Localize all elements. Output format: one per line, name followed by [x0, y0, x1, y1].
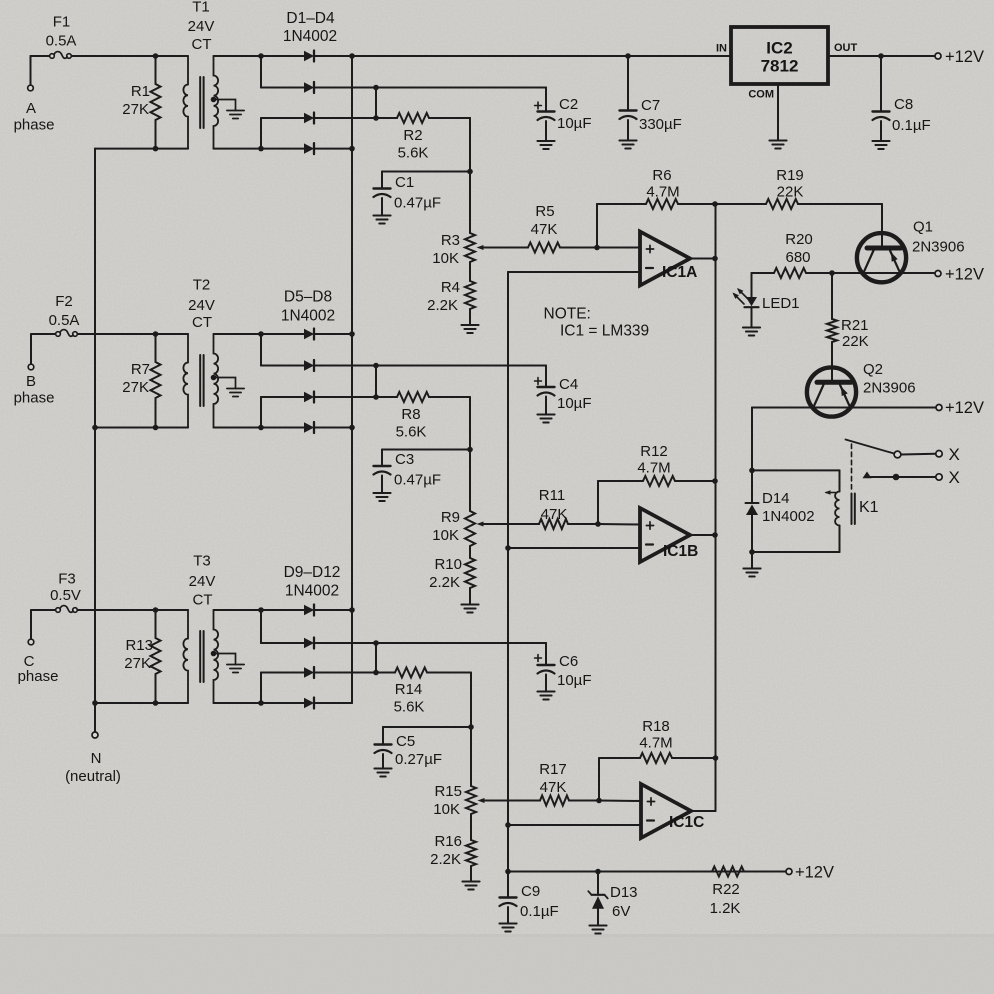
svg-text:0.5A: 0.5A — [49, 312, 80, 329]
label R4 — [427, 279, 460, 314]
ground C9 — [499, 924, 516, 932]
svg-text:0.5V: 0.5V — [50, 587, 81, 604]
svg-text:T3: T3 — [193, 553, 211, 570]
svg-text:0.1µF: 0.1µF — [892, 117, 931, 134]
svg-text:phase: phase — [18, 668, 59, 685]
svg-text:D13: D13 — [610, 884, 638, 901]
wire IC1C - input — [508, 824, 641, 826]
wire detect-C to C6 — [376, 643, 546, 665]
svg-text:10K: 10K — [432, 250, 459, 267]
label X (top) — [949, 445, 960, 464]
label F1 — [46, 14, 77, 50]
svg-text:C1: C1 — [395, 174, 414, 191]
label IC2 pin IN — [716, 42, 727, 54]
node R1 top — [153, 53, 159, 59]
svg-text:R22: R22 — [712, 881, 740, 898]
label R16 — [430, 833, 462, 868]
svg-text:2.2K: 2.2K — [430, 851, 461, 868]
node C7 tap — [625, 53, 631, 59]
svg-text:Q2: Q2 — [863, 361, 883, 378]
svg-text:R16: R16 — [434, 833, 462, 850]
label R22 — [710, 881, 741, 917]
diode D8 — [261, 422, 352, 433]
svg-text:B: B — [26, 373, 36, 390]
node R7 top — [153, 331, 159, 337]
resistor R14 5.6K — [395, 668, 427, 678]
svg-text:10µF: 10µF — [557, 115, 592, 132]
svg-text:2.2K: 2.2K — [427, 297, 458, 314]
label NOTE IC1=LM339 — [544, 306, 650, 340]
ground R16 — [462, 882, 479, 890]
svg-text:C8: C8 — [894, 96, 913, 113]
svg-text:COM: COM — [748, 89, 774, 101]
svg-text:0.47µF: 0.47µF — [394, 195, 441, 212]
node C1 junction — [467, 169, 473, 175]
wire R15-R16 — [470, 814, 472, 840]
svg-text:C2: C2 — [559, 96, 578, 113]
transistor Q1 2N3906 PNP — [857, 233, 906, 282]
wire detect-B to C4 — [376, 366, 546, 388]
wire D14 ground stub — [751, 552, 753, 569]
svg-text:R5: R5 — [535, 203, 554, 220]
svg-text:27K: 27K — [124, 655, 151, 672]
wire to R9 — [469, 450, 471, 512]
label C8 — [892, 96, 931, 134]
svg-text:R3: R3 — [441, 232, 460, 249]
svg-text:10K: 10K — [433, 801, 460, 818]
wire detect-B to R8 — [376, 396, 397, 398]
svg-text:47K: 47K — [541, 506, 568, 523]
label R14 — [394, 681, 425, 716]
diode D11 — [261, 667, 376, 678]
svg-text:R17: R17 — [539, 761, 567, 778]
wire R16 to ground — [470, 866, 472, 882]
node R11/R12 junction — [595, 521, 601, 527]
svg-text:CT: CT — [193, 592, 213, 609]
op-amp IC1B comparator — [640, 508, 698, 562]
wire R1 bottom lead — [155, 120, 157, 149]
terminal X (bottom) — [936, 474, 942, 480]
svg-text:C4: C4 — [559, 376, 578, 393]
svg-text:F3: F3 — [58, 571, 76, 588]
node R13 top — [153, 607, 159, 613]
wire IC1B - input — [508, 547, 640, 549]
wire 6V reference line — [507, 272, 509, 872]
svg-text:D14: D14 — [762, 490, 790, 507]
svg-text:2N3906: 2N3906 — [912, 239, 965, 256]
svg-text:CT: CT — [192, 314, 212, 331]
node IC1B - tap — [505, 545, 511, 551]
node T2 secondary junctions — [258, 331, 264, 430]
svg-text:D5–D8: D5–D8 — [284, 289, 332, 306]
svg-text:IC1A: IC1A — [662, 264, 697, 281]
node R18 bus junction — [713, 755, 719, 761]
node fixed contact dot — [893, 474, 900, 481]
capacitor C8 — [873, 56, 890, 141]
wire relay top lead — [752, 470, 840, 491]
svg-text:IC2: IC2 — [766, 39, 792, 58]
relay switch moving contact — [894, 451, 901, 458]
diode D7 — [261, 392, 376, 403]
svg-text:2N3906: 2N3906 — [863, 380, 916, 397]
wire R7 leads — [155, 334, 157, 428]
wire R3-R4 — [469, 262, 471, 281]
wire IC2 COM to ground — [777, 84, 779, 141]
svg-text:4.7M: 4.7M — [646, 184, 679, 201]
svg-text:+12V: +12V — [945, 266, 984, 284]
svg-text:CT: CT — [192, 36, 212, 53]
wire C1 tap — [382, 171, 470, 173]
svg-text:A: A — [26, 100, 36, 117]
resistor R21 22K — [827, 273, 837, 380]
resistor R8 5.6K — [397, 392, 429, 402]
wire T2 secondary bottom lead — [214, 427, 262, 429]
svg-text:NOTE:: NOTE: — [544, 306, 591, 323]
label F3 — [50, 571, 81, 605]
svg-text:T2: T2 — [193, 277, 211, 294]
label D13 — [610, 884, 638, 920]
wire T3 bottom lead to neutral — [95, 702, 188, 704]
node D14 bottom junction — [749, 549, 755, 555]
potentiometer R3 10K — [465, 233, 528, 262]
transformer T2 24V CT with center-tap ground — [183, 334, 244, 428]
svg-text:330µF: 330µF — [639, 116, 682, 133]
label R21 — [841, 317, 869, 350]
wire R13 leads — [155, 610, 157, 703]
capacitor C7 — [620, 56, 637, 141]
wire detect-A to C2 — [376, 88, 546, 112]
svg-text:22K: 22K — [842, 333, 869, 350]
label R15 — [433, 783, 462, 818]
node detect-A rows 2-3 join — [373, 85, 379, 121]
terminal B phase — [28, 364, 34, 370]
label Q1 — [912, 219, 965, 256]
svg-text:2.2K: 2.2K — [429, 574, 460, 591]
op-amp IC1A comparator — [640, 232, 697, 286]
label R10 — [429, 556, 462, 591]
svg-text:7812: 7812 — [761, 57, 799, 76]
svg-text:R8: R8 — [401, 406, 420, 423]
svg-text:R12: R12 — [640, 443, 668, 460]
svg-text:R10: R10 — [434, 556, 462, 573]
label R6 — [646, 167, 679, 201]
node D14 top junction — [749, 468, 755, 474]
label C4 — [557, 376, 592, 412]
transistor Q2 2N3906 PNP — [807, 367, 856, 416]
label +12V (Q2) — [945, 399, 984, 417]
wire joining diode rows 5-6 and 7-8 — [260, 334, 262, 428]
svg-text:R1: R1 — [131, 83, 150, 100]
wire R9-R10 — [469, 546, 471, 558]
svg-text:R15: R15 — [434, 783, 462, 800]
svg-text:10K: 10K — [432, 527, 459, 544]
label N (neutral) — [65, 750, 121, 785]
ground R4 — [461, 325, 478, 333]
potentiometer R9 10K — [465, 511, 539, 546]
wire top +V rail from D1 cathode to IC2 IN — [315, 55, 732, 57]
svg-text:C9: C9 — [521, 883, 540, 900]
wire joining diode rows 3-4 — [260, 118, 262, 149]
resistor R17 47K — [540, 796, 569, 806]
svg-text:phase: phase — [14, 117, 55, 134]
resistor R10 2.2K — [465, 558, 475, 588]
node R5/R6 junction — [594, 245, 600, 251]
ground C7 — [619, 141, 636, 149]
label R8 — [396, 406, 427, 441]
wire LED/R20 lead — [752, 272, 775, 274]
wire C5 tap — [383, 726, 471, 728]
wire Q2 collector down — [751, 408, 753, 471]
svg-text:+12V: +12V — [795, 864, 834, 882]
wire R19 to Q1 base — [798, 204, 882, 246]
label LED1 — [762, 295, 800, 312]
svg-text:LED1: LED1 — [762, 295, 800, 312]
svg-text:10µF: 10µF — [557, 395, 592, 412]
node T3 secondary junctions — [258, 607, 264, 706]
diode D5 — [261, 329, 352, 340]
label +12V (Q1) — [945, 266, 984, 284]
wire reference bottom rail — [508, 871, 786, 873]
terminal N neutral — [92, 732, 98, 738]
wire comparator output bus — [715, 204, 717, 811]
wire R2 to divider — [429, 118, 470, 172]
resistor R5 47K — [528, 243, 560, 253]
label T2 — [188, 277, 215, 332]
svg-text:R20: R20 — [785, 231, 813, 248]
svg-text:0.5A: 0.5A — [46, 33, 77, 50]
wire R18 to output bus — [672, 757, 716, 759]
ground C5 — [374, 769, 391, 777]
ground C6 — [537, 692, 554, 700]
svg-text:T1: T1 — [192, 0, 210, 16]
ground D14 — [743, 569, 760, 577]
label R19 — [776, 167, 804, 201]
wire R18 feedback left — [599, 758, 640, 801]
label IC2 pin OUT — [834, 42, 858, 54]
node T1 secondary bottom junction — [258, 146, 264, 152]
label D5-D8 — [281, 289, 335, 325]
diode D10 — [261, 638, 376, 649]
label X (bottom) — [949, 468, 960, 487]
svg-text:24V: 24V — [188, 18, 215, 35]
relay K1 actuation dashed link — [851, 444, 853, 490]
svg-text:5.6K: 5.6K — [394, 699, 425, 716]
label +12V (top) — [945, 48, 984, 66]
svg-text:F2: F2 — [55, 293, 73, 310]
label C2 — [557, 96, 592, 132]
terminal +12V (top) — [935, 53, 941, 59]
svg-text:4.7M: 4.7M — [639, 735, 672, 752]
label T3 — [189, 553, 216, 609]
svg-text:+12V: +12V — [945, 48, 984, 66]
wire R1 top lead — [155, 56, 157, 84]
terminal X (top) — [936, 451, 942, 457]
fuse F3 — [31, 606, 188, 639]
label C1 — [394, 174, 441, 212]
node C3 junction — [467, 447, 473, 453]
svg-text:N: N — [91, 750, 102, 767]
svg-text:47K: 47K — [540, 779, 567, 796]
label R3 — [432, 232, 460, 267]
node IC1C - tap — [505, 822, 511, 828]
svg-text:D9–D12: D9–D12 — [284, 564, 341, 581]
wire T1 secondary top lead — [214, 55, 262, 57]
relay switch arm — [846, 440, 895, 454]
svg-text:R4: R4 — [441, 279, 460, 296]
label R11 — [539, 487, 568, 523]
ground IC2 COM — [769, 141, 786, 149]
diode D14 1N4002 flyback — [746, 470, 759, 552]
label D1-D4 — [283, 10, 337, 45]
fuse F2 — [31, 330, 188, 364]
label R7 — [122, 361, 150, 396]
label Q2 — [863, 361, 916, 397]
node neutral tap C — [92, 700, 98, 706]
led LED1 emission arrows — [733, 288, 749, 304]
node R21 tap — [829, 270, 835, 276]
ground D13 — [589, 926, 606, 934]
wire C3 tap — [382, 449, 470, 451]
terminal C phase — [28, 639, 34, 645]
node rail-bus junction — [349, 53, 355, 59]
node R1 bottom — [153, 146, 159, 152]
wire Q1 chord — [864, 272, 900, 274]
wire R20 to Q1 collector — [806, 272, 864, 274]
svg-text:IC1B: IC1B — [663, 543, 698, 560]
label D9-D12 — [284, 564, 341, 600]
resistor R7 27K — [151, 362, 161, 398]
wire R10 to ground — [469, 588, 471, 605]
svg-text:OUT: OUT — [834, 42, 858, 54]
node bus row1-B — [349, 331, 355, 337]
wire T3 secondary top lead — [214, 609, 262, 611]
op-amp IC1C comparator — [641, 784, 704, 838]
label +12V (reference) — [795, 864, 834, 882]
label R13 — [124, 637, 153, 672]
node IC1B output junction — [712, 532, 718, 538]
terminal A phase — [28, 85, 34, 91]
fuse F1 — [31, 52, 189, 85]
wire relay bottom lead — [752, 526, 840, 553]
label C phase — [18, 653, 59, 685]
label IC2 pin COM — [748, 89, 774, 101]
svg-text:1N4002: 1N4002 — [285, 583, 339, 600]
svg-text:R9: R9 — [441, 509, 460, 526]
svg-text:6V: 6V — [612, 903, 630, 920]
ground C8 — [872, 141, 889, 149]
svg-text:R6: R6 — [652, 167, 671, 184]
node detect-B rows join — [373, 363, 379, 400]
wire Q2 emitter to +12V — [850, 407, 937, 409]
resistor R12 4.7M — [643, 476, 675, 486]
resistor R22 1.2K — [712, 867, 744, 877]
svg-text:24V: 24V — [188, 297, 215, 314]
wire to R15 — [470, 727, 472, 786]
svg-text:24V: 24V — [189, 573, 216, 590]
label R18 — [639, 718, 672, 752]
IC2 7812 regulator U-box — [731, 27, 828, 84]
relay K1 coil — [825, 490, 840, 525]
terminal +12V (reference) — [786, 869, 792, 875]
node bus row4-B — [349, 425, 355, 431]
diode D3 — [261, 113, 376, 124]
wire R14 to divider — [427, 673, 471, 728]
svg-text:27K: 27K — [122, 101, 149, 118]
svg-text:C7: C7 — [641, 97, 660, 114]
label R1 — [122, 83, 150, 118]
svg-text:4.7M: 4.7M — [637, 460, 670, 477]
wire R12 feedback left — [598, 481, 643, 524]
svg-text:C6: C6 — [559, 653, 578, 670]
svg-text:22K: 22K — [777, 184, 804, 201]
wire joining diode rows 9-10 and 11-12 — [260, 610, 262, 703]
capacitor C4 10uF polarized — [535, 378, 555, 415]
node C5 junction — [468, 724, 474, 730]
transformer T3 24V CT with center-tap ground — [183, 610, 244, 703]
wire R11 to IC1B + — [568, 523, 640, 526]
capacitor C6 10uF polarized — [535, 655, 555, 692]
diode D4 — [261, 143, 352, 154]
svg-text:IC1C: IC1C — [669, 814, 704, 831]
svg-text:0.47µF: 0.47µF — [394, 472, 441, 489]
svg-text:10µF: 10µF — [557, 672, 592, 689]
wire Q2 chord — [814, 407, 850, 409]
resistor R4 2.2K — [465, 281, 475, 309]
label K1 — [859, 499, 879, 516]
terminal +12V (Q1) — [935, 271, 941, 277]
capacitor C1 0.47uF — [374, 172, 391, 216]
resistor R11 47K — [539, 519, 568, 529]
wire R22 to +12V — [744, 871, 786, 873]
wire T2 secondary top lead — [214, 333, 262, 335]
label A phase — [14, 100, 55, 134]
node R6/R19 junction — [712, 201, 718, 207]
node detect-C rows join — [373, 640, 379, 675]
wire IC1A output — [690, 258, 715, 260]
svg-text:phase: phase — [14, 390, 55, 407]
node R13 bottom — [153, 700, 159, 706]
svg-text:IC1 = LM339: IC1 = LM339 — [560, 323, 649, 340]
svg-text:Q1: Q1 — [913, 219, 933, 236]
diode D6 — [261, 360, 376, 371]
svg-text:F1: F1 — [53, 14, 71, 31]
diode D1 — [261, 51, 352, 62]
label C7 — [639, 97, 682, 133]
wire IC1A - input — [508, 271, 640, 273]
relay K1 core — [852, 494, 855, 525]
svg-text:1N4002: 1N4002 — [281, 308, 335, 325]
label R17 — [539, 761, 567, 796]
wire R17 to IC1C + — [569, 800, 641, 803]
wire rectifier +V bus — [351, 56, 353, 703]
potentiometer R15 10K — [466, 786, 540, 814]
ground C1 — [373, 216, 390, 224]
diode D2 — [261, 82, 376, 93]
node R12 bus junction — [712, 478, 718, 484]
resistor R18 4.7M — [640, 753, 672, 763]
label B phase — [14, 373, 55, 407]
wire switch to X terminal (top) — [901, 453, 936, 456]
label R2 — [398, 127, 429, 162]
diode D9 — [261, 605, 352, 616]
node D13 rail junction — [595, 869, 601, 875]
node C9 rail junction — [505, 869, 511, 875]
label T1 — [188, 0, 215, 53]
resistor R2 5.6K — [397, 113, 429, 123]
node R17/R18 junction — [596, 798, 602, 804]
wire T3 secondary bottom lead — [214, 702, 262, 704]
svg-text:X: X — [949, 445, 960, 464]
